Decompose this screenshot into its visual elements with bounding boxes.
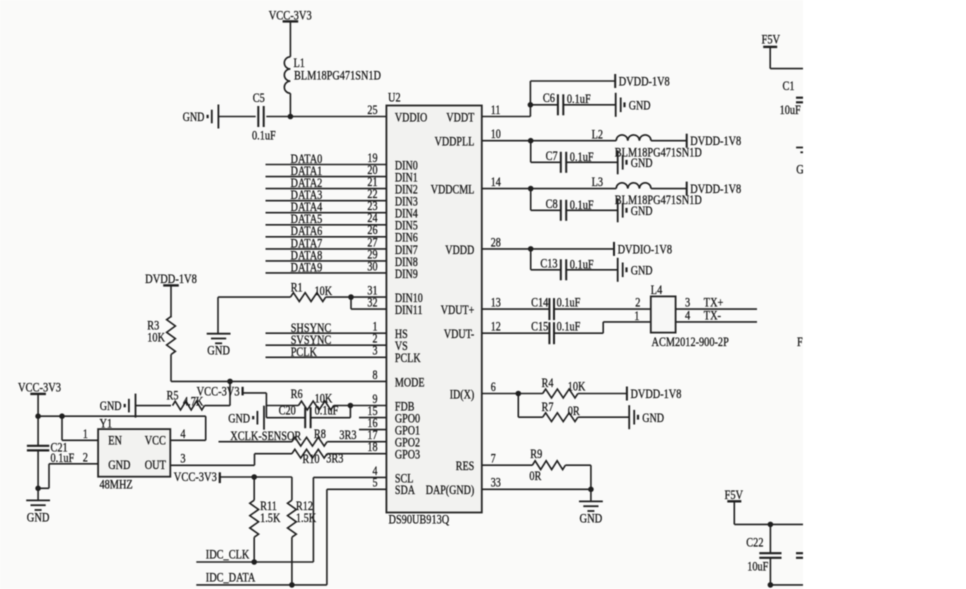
svg-text:8: 8: [373, 368, 378, 382]
wire C8: [530, 189, 532, 211]
svg-text:GND: GND: [629, 98, 651, 112]
svg-text:XCLK-SENSOR: XCLK-SENSOR: [230, 429, 301, 443]
svg-text:10K: 10K: [315, 284, 333, 298]
svg-text:6: 6: [491, 380, 496, 394]
power VCC-3V3 bar: [197, 383, 243, 398]
power DVDD-1V8: [615, 74, 670, 88]
svg-text:GPO3: GPO3: [395, 448, 420, 462]
svg-text:GND: GND: [108, 458, 130, 472]
U2 left pin names: [395, 110, 427, 497]
svg-text:GND: GND: [228, 411, 250, 425]
svg-text:10K: 10K: [147, 331, 165, 345]
capacitor C5: [252, 91, 276, 143]
svg-text:2: 2: [635, 295, 640, 309]
wire pin12: [482, 332, 550, 334]
capacitor C8: [546, 197, 594, 221]
svg-text:R5: R5: [167, 389, 179, 403]
wire OUT pin3: [169, 464, 171, 466]
wire R11: [253, 477, 255, 500]
svg-text:DIN9: DIN9: [395, 267, 418, 281]
wire GPO1 stub: [359, 429, 386, 431]
svg-text:C15: C15: [531, 319, 548, 333]
svg-text:EN: EN: [108, 433, 122, 447]
svg-text:GND: GND: [183, 110, 205, 124]
node junction: [35, 413, 41, 419]
svg-text:25: 25: [367, 103, 377, 117]
wire VCC to Y1: [38, 415, 206, 417]
svg-text:R1: R1: [291, 280, 303, 294]
wire C21 down: [37, 450, 39, 500]
node junction MODE: [227, 379, 233, 385]
svg-text:GND: GND: [642, 411, 664, 425]
ground: [796, 148, 820, 177]
wire SHSYNC: [266, 332, 387, 334]
svg-text:1.5K: 1.5K: [260, 511, 281, 525]
power DVDD-1V8: [145, 271, 197, 286]
ground: [100, 394, 136, 418]
node junction C13: [528, 246, 534, 252]
svg-text:DVDD-1V8: DVDD-1V8: [690, 134, 741, 148]
svg-text:TX-: TX-: [704, 308, 721, 322]
wire C20: [266, 417, 305, 419]
ground: [629, 405, 664, 429]
node junction C6: [528, 102, 534, 108]
svg-text:11: 11: [491, 103, 501, 117]
svg-text:10: 10: [491, 127, 501, 141]
ferrite bead L3: [592, 175, 702, 207]
wire DATA5: [266, 224, 387, 226]
wire: [289, 21, 291, 56]
svg-text:DATA9: DATA9: [291, 260, 323, 274]
resistor R9: [529, 447, 565, 483]
svg-text:C1: C1: [783, 79, 795, 93]
svg-text:VDDPLL: VDDPLL: [435, 135, 475, 149]
svg-text:VCC-3V3: VCC-3V3: [269, 7, 312, 22]
wire mode to R5: [229, 381, 231, 405]
power VCC-3V3 bar low: [174, 469, 220, 484]
U2 left pin numbers: [367, 103, 378, 490]
svg-text:BLM18PG471SN1D: BLM18PG471SN1D: [615, 193, 702, 207]
node junction DAP: [588, 487, 594, 493]
svg-text:DVDD-1V8: DVDD-1V8: [631, 387, 682, 401]
power DVDD-1V8: [627, 387, 682, 401]
ferrite bead L2: [592, 127, 702, 159]
svg-text:VCC-3V3: VCC-3V3: [174, 469, 217, 484]
L4 pin numbers: [634, 295, 690, 323]
wire F5V low: [733, 501, 735, 524]
node junction IDC_DATA: [289, 582, 295, 588]
wire to power: [651, 188, 687, 190]
resistor R8: [292, 427, 357, 446]
capacitor partial right: [796, 553, 820, 558]
wire Y1 GND pin2: [49, 463, 98, 465]
wire C1: [807, 69, 809, 98]
wire DATA3: [266, 200, 387, 202]
wire TX-: [676, 321, 757, 323]
svg-text:VDUT+: VDUT+: [441, 303, 475, 317]
svg-text:VDDCML: VDDCML: [431, 183, 475, 197]
svg-text:RES: RES: [456, 459, 475, 473]
svg-text:VCC-3V3: VCC-3V3: [197, 383, 240, 398]
ground: [618, 150, 653, 174]
wire C7: [530, 141, 532, 163]
wire: [218, 116, 255, 118]
svg-text:ACM2012-900-2P: ACM2012-900-2P: [652, 335, 729, 349]
wire DATA4: [266, 212, 387, 214]
svg-text:R10: R10: [302, 452, 319, 466]
wire to power: [651, 140, 687, 142]
node junction pin6: [516, 391, 522, 397]
wire DATA7: [266, 248, 387, 250]
resistor R12: [288, 499, 317, 537]
resistor R7: [542, 400, 581, 422]
capacitor C13: [540, 257, 593, 281]
node junction C7: [528, 138, 534, 144]
svg-text:13: 13: [491, 296, 501, 310]
svg-text:0R: 0R: [529, 469, 541, 483]
wire pin 10: [482, 140, 616, 142]
svg-text:VDDIO: VDDIO: [395, 110, 427, 124]
resistor R1: [291, 280, 333, 301]
svg-text:C5: C5: [253, 91, 265, 105]
svg-text:MODE: MODE: [395, 375, 425, 389]
resistor R6: [291, 387, 334, 410]
svg-text:R7: R7: [542, 400, 554, 414]
node junction R11 top: [251, 474, 257, 480]
capacitor C14: [531, 295, 580, 320]
wire GPO3: [255, 453, 293, 455]
power DVDD-1V8: [687, 134, 742, 148]
svg-text:0.1uF: 0.1uF: [252, 129, 276, 143]
resistor R11: [250, 499, 281, 537]
svg-text:DAP(GND): DAP(GND): [426, 483, 475, 497]
wire R9 down: [590, 465, 592, 501]
svg-text:48MHZ: 48MHZ: [100, 477, 133, 491]
node junction FDB: [348, 403, 354, 409]
svg-text:4: 4: [180, 427, 186, 441]
svg-text:10uF: 10uF: [747, 560, 768, 574]
power DVDIO-1V8: [614, 242, 672, 256]
ground: [207, 334, 231, 358]
wire C22: [769, 524, 771, 553]
wire R1 right to pin31: [326, 296, 387, 298]
svg-text:C20: C20: [279, 404, 296, 418]
svg-text:33: 33: [491, 476, 501, 490]
wire DATA0: [266, 164, 387, 166]
svg-text:SDA: SDA: [395, 483, 415, 497]
svg-text:1: 1: [83, 427, 88, 441]
svg-text:VCC: VCC: [145, 433, 166, 447]
resistor R10: [292, 449, 344, 466]
wire R12: [291, 477, 293, 500]
wire VCC down: [37, 394, 39, 445]
svg-text:VDDT: VDDT: [446, 110, 474, 124]
node junction C22 bottom: [768, 582, 774, 588]
svg-text:IDC_DATA: IDC_DATA: [206, 570, 256, 584]
node junction C8: [528, 186, 534, 192]
capacitor C21: [27, 441, 74, 465]
wire SDA: [327, 488, 387, 490]
svg-text:GND: GND: [631, 263, 653, 277]
svg-text:BLM18PG471SN1D: BLM18PG471SN1D: [615, 145, 702, 159]
resistor R4: [542, 376, 587, 398]
wire: [170, 285, 172, 317]
ground: [228, 406, 264, 430]
svg-text:GND: GND: [580, 510, 603, 525]
svg-text:R8: R8: [314, 427, 326, 441]
svg-text:R6: R6: [291, 387, 303, 401]
svg-text:VDUT-: VDUT-: [444, 327, 474, 341]
ground: [26, 500, 50, 524]
svg-text:L4: L4: [651, 283, 663, 297]
svg-text:DVDD-1V8: DVDD-1V8: [619, 74, 670, 88]
oscillator Y1 48MHZ: [98, 417, 170, 492]
wire VCC pin4: [205, 416, 207, 440]
Y1 pin numbers: [83, 427, 186, 466]
wire OUT to R10: [254, 454, 256, 466]
svg-text:7: 7: [491, 452, 496, 466]
ground: [183, 105, 219, 129]
svg-text:10K: 10K: [568, 379, 586, 393]
svg-text:VDDD: VDDD: [445, 243, 474, 257]
power DVDD-1V8: [687, 182, 742, 196]
power VCC-3V3 left: [18, 379, 61, 394]
wire IDC_DATA: [196, 584, 327, 586]
wire DATA6: [266, 236, 387, 238]
wire pin 14: [482, 188, 616, 190]
wire MODE: [170, 355, 172, 382]
svg-text:C22: C22: [746, 536, 763, 550]
svg-text:R9: R9: [530, 447, 542, 461]
svg-text:DVDD-1V8: DVDD-1V8: [145, 271, 197, 286]
svg-text:DIN11: DIN11: [395, 303, 423, 317]
svg-text:1: 1: [634, 309, 639, 323]
wire SCL: [313, 476, 386, 478]
svg-text:0R: 0R: [568, 404, 580, 418]
wire DATA1: [266, 176, 387, 178]
wire PCLK: [266, 356, 387, 358]
svg-text:L3: L3: [592, 175, 603, 189]
svg-text:C8: C8: [546, 197, 558, 211]
svg-text:PCLK: PCLK: [291, 345, 318, 359]
capacitor C1: [780, 79, 820, 117]
wire R7 row: [517, 394, 519, 418]
svg-text:C14: C14: [531, 295, 549, 309]
wire R1 to ground: [217, 297, 219, 334]
svg-text:R4: R4: [542, 376, 554, 390]
svg-text:F5V: F5V: [725, 487, 744, 502]
wire pin7: [482, 464, 533, 466]
wire to pin32: [350, 297, 352, 309]
ground: [618, 198, 653, 222]
wire: [289, 93, 291, 116]
svg-text:GND: GND: [27, 509, 50, 524]
svg-text:3: 3: [685, 295, 690, 309]
svg-text:IDC_CLK: IDC_CLK: [206, 547, 250, 561]
wire pin11: [482, 116, 531, 118]
power F5V: [762, 31, 781, 47]
svg-text:GND: GND: [100, 399, 122, 413]
svg-text:14: 14: [491, 175, 502, 189]
svg-text:C7: C7: [546, 149, 558, 163]
wire DATA8: [266, 260, 387, 262]
node junction IDC_CLK: [251, 559, 257, 565]
U2 right pin numbers: [491, 103, 502, 490]
node junction EN: [59, 413, 65, 419]
svg-text:GND: GND: [631, 156, 653, 170]
svg-text:BLM18PG471SN1D: BLM18PG471SN1D: [294, 69, 381, 83]
node junction pin31: [348, 294, 354, 300]
svg-text:F5V: F5V: [762, 31, 781, 46]
svg-text:VCC-3V3: VCC-3V3: [18, 379, 61, 394]
wire: [136, 405, 172, 407]
svg-text:28: 28: [491, 235, 501, 249]
capacitor C22: [746, 536, 781, 574]
svg-text:GND: GND: [631, 204, 653, 218]
wire: [243, 392, 267, 394]
svg-text:DS90UB913Q: DS90UB913Q: [389, 513, 450, 527]
power VCC-3V3: [269, 7, 312, 22]
svg-text:OUT: OUT: [145, 458, 166, 472]
wire SVSYNC: [266, 344, 387, 346]
wire FDB: [266, 405, 298, 407]
node junction: [288, 114, 294, 120]
resistor R3: [147, 317, 175, 355]
wire R1 left: [218, 296, 291, 298]
svg-text:3R3: 3R3: [339, 428, 356, 442]
op-amp U1 IC U2 DS90UB913Q body: [386, 91, 481, 527]
resistor R5: [167, 389, 205, 410]
capacitor C6: [543, 91, 591, 115]
wire C6: [530, 104, 558, 106]
wire: [205, 405, 231, 407]
wire EN: [61, 416, 63, 440]
svg-text:3: 3: [180, 452, 185, 466]
svg-text:DVDIO-1V8: DVDIO-1V8: [618, 242, 672, 256]
wire IDC_CLK: [196, 561, 313, 563]
wire TX+: [676, 308, 757, 310]
svg-text:GND: GND: [207, 343, 230, 358]
svg-text:0.1uF: 0.1uF: [557, 319, 581, 333]
wire DATA2: [266, 188, 387, 190]
svg-text:12: 12: [491, 320, 501, 334]
node junction C22: [768, 522, 774, 528]
capacitor C15: [531, 319, 580, 344]
wire C13: [530, 249, 532, 270]
svg-text:2: 2: [83, 451, 88, 465]
wire pin33: [482, 488, 591, 490]
wire pin25: [266, 116, 386, 118]
capacitor C20: [279, 404, 339, 429]
wire pin28: [482, 248, 614, 250]
svg-text:C6: C6: [543, 91, 555, 105]
svg-text:0.1uF: 0.1uF: [557, 295, 581, 309]
ferrite bead L1: [284, 56, 381, 93]
wire pin6: [482, 393, 543, 395]
power F5V low: [725, 487, 744, 502]
wire XCLK-SENSOR: [219, 441, 293, 443]
svg-text:0.1uF: 0.1uF: [51, 451, 75, 465]
svg-text:ID(X): ID(X): [450, 387, 475, 401]
U2 right pin names: [426, 110, 475, 497]
capacitor C7: [546, 149, 594, 173]
node junction GND: [35, 486, 41, 492]
svg-text:0.1uF: 0.1uF: [315, 404, 339, 418]
common mode choke L4 ACM2012-900-2P: [651, 283, 729, 349]
svg-text:C13: C13: [540, 257, 557, 271]
svg-text:DVDD-1V8: DVDD-1V8: [690, 182, 741, 196]
svg-text:U2: U2: [388, 91, 401, 105]
ground: [618, 258, 653, 282]
svg-text:PCLK: PCLK: [395, 351, 421, 365]
svg-text:10uF: 10uF: [780, 103, 801, 117]
wire GPO0 stub: [359, 417, 386, 419]
svg-text:Y1: Y1: [100, 417, 113, 431]
wire pin13: [482, 308, 550, 310]
svg-text:L2: L2: [592, 127, 603, 141]
svg-text:4: 4: [685, 308, 691, 322]
wire VCC row: [220, 476, 292, 478]
wire F5V: [769, 47, 771, 69]
ground: [616, 93, 651, 117]
wire DATA9: [266, 272, 387, 274]
ground: [579, 501, 603, 525]
